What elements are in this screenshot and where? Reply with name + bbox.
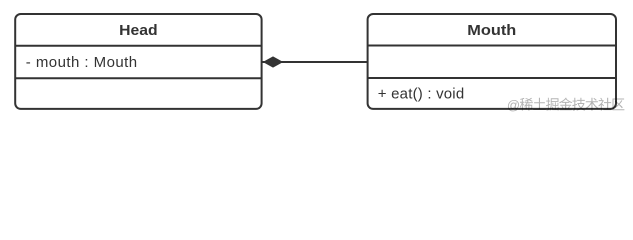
class Mouth box [368, 14, 616, 109]
svg-text:@: @ [507, 97, 520, 112]
composition connector wire from Head to Mouth [262, 61, 368, 63]
svg-text:Head: Head [119, 22, 157, 39]
class Mouth divider 1 [368, 45, 616, 47]
watermark @稀土掘金技术社区 (drawn on top, multiply blend) [507, 97, 625, 112]
class Head divider 1 [15, 45, 261, 47]
svg-text:+ eat() : void: + eat() : void [378, 86, 465, 103]
class Head box [15, 14, 261, 109]
svg-text:- mouth : Mouth: - mouth : Mouth [26, 54, 138, 71]
class Head divider 2 [15, 77, 261, 79]
composition diamond (filled, at Head end) [263, 56, 283, 67]
class Mouth divider 2 [368, 77, 616, 79]
svg-text:Mouth: Mouth [467, 23, 516, 39]
